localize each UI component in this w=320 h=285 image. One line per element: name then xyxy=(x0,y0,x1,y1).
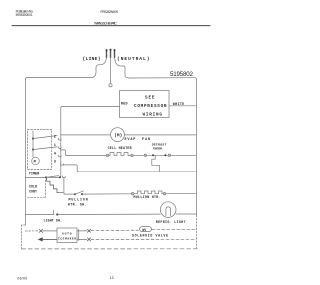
wire top rail right xyxy=(130,78,196,80)
mullion switch contact A xyxy=(74,193,76,195)
defrost junction dot left xyxy=(152,154,154,156)
cold control hook xyxy=(62,176,65,178)
solenoid WV stadium xyxy=(140,227,152,232)
wire top row dashed to WV xyxy=(91,229,139,231)
svg-text:WHITE: WHITE xyxy=(173,103,185,107)
evap fan motor xyxy=(111,128,125,142)
timer junction dot B xyxy=(32,149,34,151)
svg-text:(LINE): (LINE) xyxy=(83,56,101,62)
svg-text:WIRING SCHEMATIC: WIRING SCHEMATIC xyxy=(94,21,117,25)
light switch pivot dot xyxy=(56,213,58,215)
svg-text:CELL HEATER: CELL HEATER xyxy=(108,146,132,150)
svg-text:1: 1 xyxy=(54,144,56,148)
icemaker enclosure left jog xyxy=(22,224,26,226)
icemaker enclosure right edge xyxy=(195,215,197,249)
mullion switch contact B xyxy=(81,193,83,195)
wire terminal3 to long row xyxy=(63,165,78,172)
wire cell heater row left xyxy=(66,154,107,156)
svg-text:WIRING: WIRING xyxy=(143,112,163,117)
wire heater to defrost xyxy=(133,154,144,156)
icemaker connector top right xyxy=(87,229,90,232)
plug prong right xyxy=(114,50,116,58)
wire icemaker top row left xyxy=(25,230,38,232)
wire defrost segment xyxy=(147,154,169,156)
compressor box U1 xyxy=(120,91,170,118)
wire mullion riser xyxy=(64,178,65,195)
wire light row right xyxy=(176,213,196,215)
cold control contact dot A xyxy=(45,176,47,178)
light switch contact xyxy=(51,214,54,216)
svg-text:EVAP. FAN: EVAP. FAN xyxy=(125,138,151,142)
wire right rail xyxy=(195,79,197,215)
icemaker connector bottom right xyxy=(87,238,90,241)
icemaker enclosure bottom xyxy=(22,248,200,250)
mullion switch blade xyxy=(75,191,84,194)
mullion heater element xyxy=(134,191,163,194)
wire bottom row dashed to rail xyxy=(91,238,196,240)
plug ground stem xyxy=(110,58,112,84)
wire mullion row left xyxy=(65,193,74,195)
svg-text:06/00: 06/00 xyxy=(17,276,27,280)
svg-text:SEE: SEE xyxy=(145,95,155,100)
wire evap fan row xyxy=(61,134,197,136)
svg-text:REFRIG. LIGHT: REFRIG. LIGHT xyxy=(156,220,186,224)
svg-text:RED: RED xyxy=(121,102,128,106)
svg-text:MULLION: MULLION xyxy=(69,198,88,202)
cell heater terminal right xyxy=(131,154,133,156)
auto icemaker box xyxy=(57,228,77,243)
icemaker left arrow terminal xyxy=(39,238,58,241)
wire box to connector top xyxy=(79,230,87,232)
svg-text:(M): (M) xyxy=(114,134,122,139)
svg-text:3: 3 xyxy=(54,161,56,165)
wire cold control row xyxy=(25,176,60,178)
header publication text xyxy=(16,10,34,17)
header rule xyxy=(12,25,210,27)
mullion heater terminal left xyxy=(132,193,134,195)
wire long row to right rail xyxy=(78,171,196,173)
svg-text:TIMER: TIMER xyxy=(29,173,40,177)
wire top rail left xyxy=(25,78,91,80)
plug ground circle xyxy=(109,84,112,87)
timer motor xyxy=(32,157,40,165)
icemaker right bracket xyxy=(77,230,79,241)
defrost therm terminal left xyxy=(144,154,146,156)
svg-text:5995350001: 5995350001 xyxy=(16,13,33,17)
svg-text:5195802: 5195802 xyxy=(170,71,194,78)
wire defrost to right rail xyxy=(171,154,197,156)
wire neutral-side S-curve xyxy=(115,58,130,79)
cold control blade xyxy=(46,176,59,178)
cold control box dashed xyxy=(28,180,46,197)
svg-text:FRS26ZNHW: FRS26ZNHW xyxy=(101,10,119,14)
defrost therm terminal right xyxy=(168,154,170,156)
svg-text:M: M xyxy=(34,161,36,165)
cell heater element xyxy=(109,153,131,156)
defrost bypass staircase xyxy=(152,155,160,171)
wire left rail xyxy=(24,79,26,225)
svg-text:HTR. SW.: HTR. SW. xyxy=(68,203,87,207)
wire compressor white stub xyxy=(169,105,196,107)
refrig lamp xyxy=(160,202,176,218)
timer terminal 4 xyxy=(54,152,57,156)
icemaker connector X left xyxy=(39,229,42,232)
plug prong left xyxy=(106,50,108,58)
timer internal bus xyxy=(32,131,34,157)
timer terminal 2 xyxy=(54,135,56,139)
wire connector to box xyxy=(43,230,57,232)
cold control capillary staircase xyxy=(47,178,64,193)
svg-text:ICEMAKER: ICEMAKER xyxy=(58,238,76,241)
timer box T1 dashed xyxy=(28,130,52,170)
wire terminal1 jog to heater row xyxy=(60,150,66,156)
svg-text:COMPRESSOR: COMPRESSOR xyxy=(134,104,167,109)
wire line-side S-curve xyxy=(91,58,106,78)
icemaker enclosure left edge xyxy=(21,225,23,249)
cold control contact dot B xyxy=(59,176,61,178)
timer blade to contact 1 xyxy=(33,147,57,150)
lamp filament xyxy=(166,207,171,216)
wire WV to right rail dashed xyxy=(152,229,197,231)
timer terminal 3 xyxy=(54,161,56,165)
wire mullion row mid xyxy=(83,193,132,195)
light switch blade xyxy=(53,210,55,214)
svg-text:CONT: CONT xyxy=(29,190,37,194)
wire light row left xyxy=(25,213,50,215)
wire light row mid xyxy=(57,213,160,215)
svg-text:SOLENOID VALVE: SOLENOID VALVE xyxy=(132,234,168,238)
timer terminal 1 xyxy=(54,144,56,148)
timer blade to contact 2 xyxy=(33,136,57,139)
defrost junction dot right xyxy=(164,154,166,156)
mullion heater terminal right xyxy=(163,193,165,195)
svg-text:LIGHT SW.: LIGHT SW. xyxy=(44,218,63,222)
wire box to connector bottom xyxy=(79,238,87,240)
plug prong center xyxy=(110,50,112,58)
cell heater terminal left xyxy=(106,154,108,156)
svg-text:13: 13 xyxy=(110,276,114,280)
wire compressor feed red xyxy=(61,106,120,177)
svg-text:AUTO: AUTO xyxy=(62,232,72,235)
svg-text:COLD: COLD xyxy=(29,184,37,188)
svg-text:THERM.: THERM. xyxy=(153,146,164,150)
timer junction dot A xyxy=(32,138,34,140)
wire mullion to right rail xyxy=(166,193,197,195)
svg-text:(NEUTRAL): (NEUTRAL) xyxy=(117,56,150,62)
svg-text:2: 2 xyxy=(54,135,56,139)
svg-text:MULLION HTR.: MULLION HTR. xyxy=(134,195,161,199)
